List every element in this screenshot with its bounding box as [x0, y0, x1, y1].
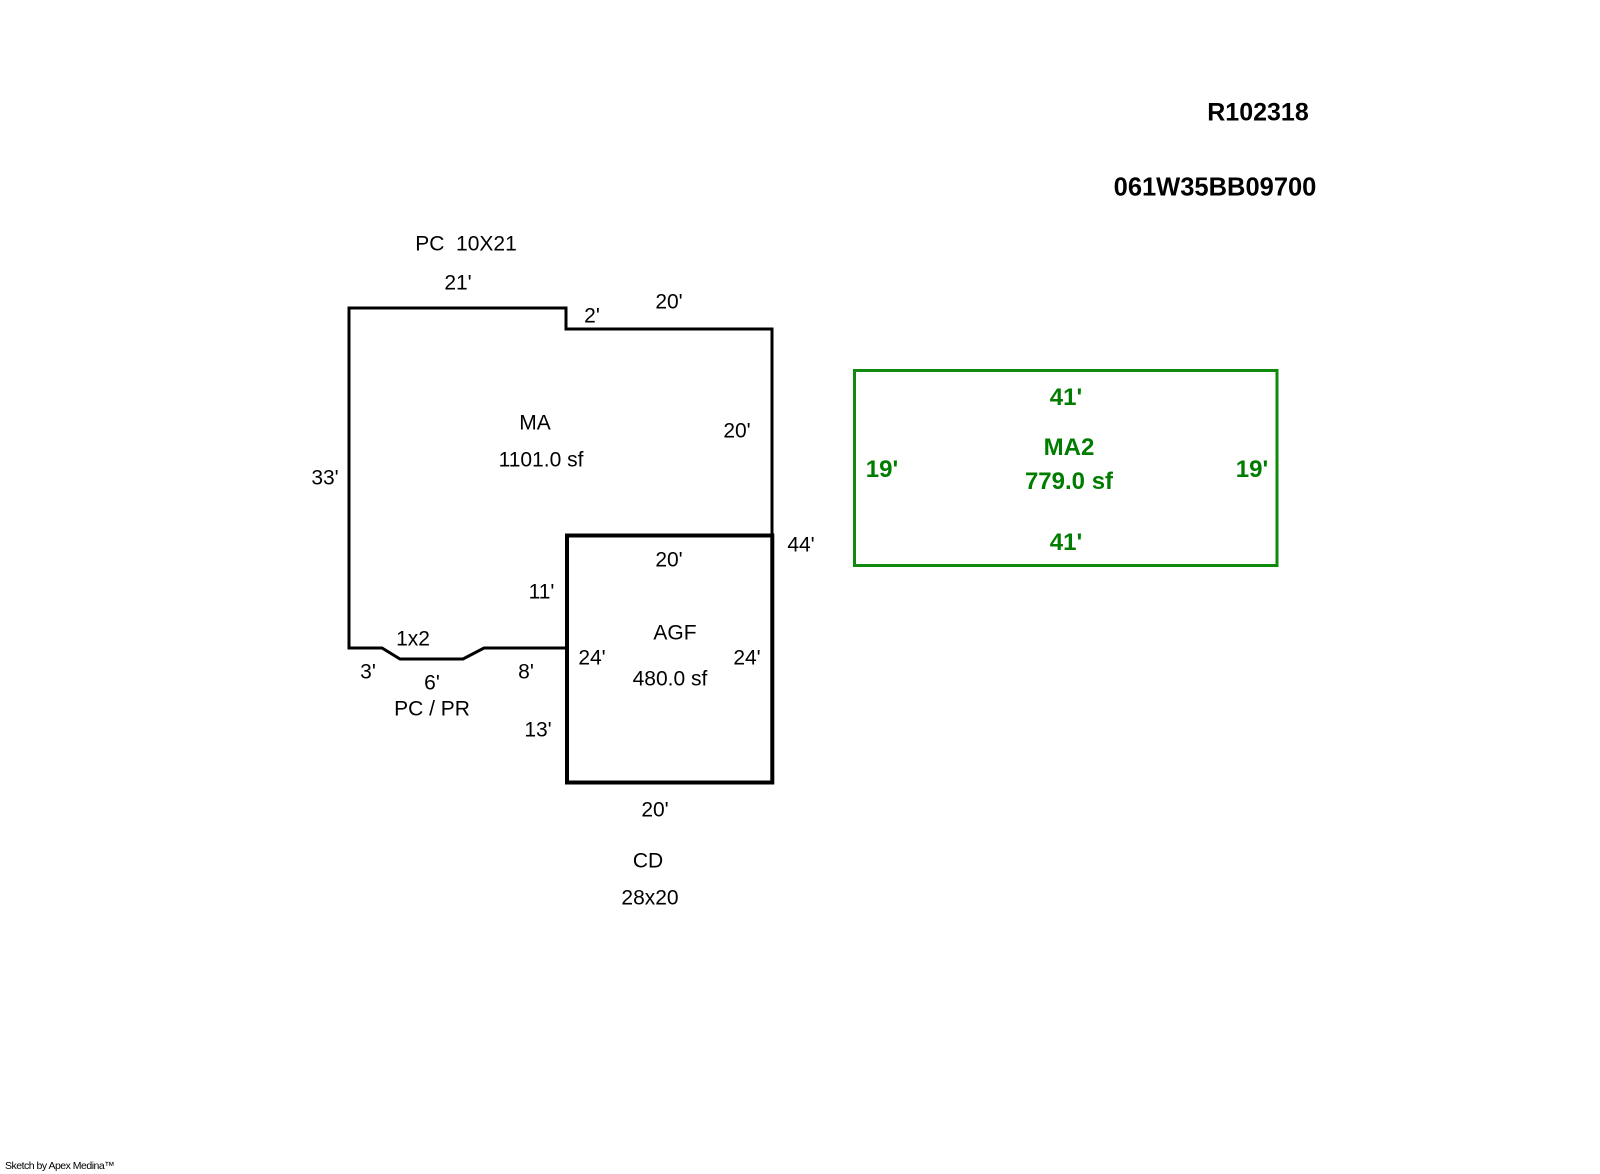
label 44' right edge: [787, 535, 814, 556]
label 20' AGF top: [655, 550, 682, 571]
footer Sketch by Apex Medina: [5, 1160, 114, 1172]
label 24' AGF left: [578, 647, 605, 668]
MA area outline: [349, 308, 772, 659]
label 3': [360, 661, 376, 682]
green label 41' top: [1050, 386, 1082, 410]
green label 779.0 sf: [1025, 470, 1113, 494]
MA2 green rectangle: [855, 371, 1278, 566]
green label 41' bottom: [1050, 531, 1082, 555]
label 20' AGF bottom: [641, 799, 668, 820]
label 6': [424, 673, 440, 694]
label 11': [529, 581, 555, 602]
label AGF: [653, 623, 696, 644]
label 8': [518, 662, 534, 683]
label 33' left edge: [311, 467, 338, 488]
label PC 10X21: [415, 234, 517, 255]
label 2' step: [584, 306, 600, 327]
header R102318: [1207, 100, 1308, 125]
header 061W35BB09700: [1114, 175, 1317, 201]
label 480.0 sf: [633, 669, 708, 690]
green label 19' left: [866, 458, 898, 482]
label 24' AGF right: [733, 647, 760, 668]
label 1101.0 sf: [499, 450, 584, 471]
label 21' top edge: [444, 273, 471, 294]
label CD: [633, 850, 663, 871]
label 13': [524, 720, 551, 741]
label 20' right edge: [723, 421, 750, 442]
green label 19' right: [1236, 458, 1268, 482]
label PC / PR: [394, 699, 470, 720]
AGF rectangle: [567, 536, 772, 783]
label 1x2 notch: [396, 629, 430, 650]
label MA: [519, 413, 551, 434]
green label MA2: [1044, 436, 1095, 460]
label 28x20: [621, 888, 678, 909]
label 20' upper top edge: [655, 291, 682, 312]
